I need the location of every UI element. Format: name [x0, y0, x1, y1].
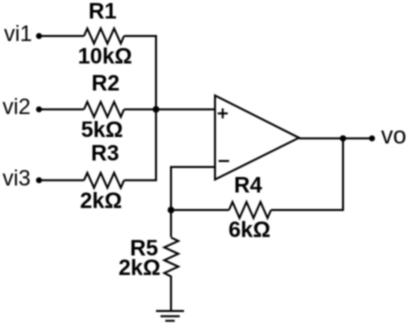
svg-text:vi2: vi2: [3, 94, 31, 119]
node feedback junction: [168, 207, 175, 214]
wire R3 to bus: [124, 109, 156, 180]
wire R4 lead from node: [171, 209, 229, 211]
wire R1 to bus: [124, 36, 156, 109]
svg-text:R1: R1: [88, 0, 116, 24]
op-amp U1: [215, 96, 299, 180]
wire R2 to op-amp + input: [124, 108, 215, 110]
node vi1 terminal dot: [36, 33, 42, 39]
svg-text:R4: R4: [234, 173, 263, 198]
wire vi2 lead: [40, 108, 84, 110]
resistor R2: [84, 102, 124, 117]
svg-text:6kΩ: 6kΩ: [228, 217, 270, 242]
node vi3 terminal dot: [36, 177, 42, 183]
svg-text:vi3: vi3: [3, 165, 31, 190]
svg-text:vi1: vi1: [4, 21, 32, 46]
node output junction: [340, 135, 346, 141]
node bus junction: [153, 106, 160, 113]
resistor R3: [84, 173, 124, 188]
ground: [156, 311, 184, 321]
op-amp - input symbol: [219, 160, 230, 162]
wire R5 to ground: [170, 283, 172, 311]
svg-text:R3: R3: [91, 141, 119, 166]
svg-text:2kΩ: 2kΩ: [118, 255, 160, 280]
wire inverting input: [171, 167, 215, 237]
resistor R4: [229, 202, 271, 218]
node vo terminal dot: [369, 135, 375, 141]
wire op-amp output: [299, 137, 372, 139]
wire vi3 lead: [40, 179, 84, 181]
svg-text:10kΩ: 10kΩ: [78, 44, 132, 69]
wire vi1 lead: [40, 35, 84, 37]
node vi2 terminal dot: [36, 106, 42, 112]
svg-text:R2: R2: [91, 71, 119, 96]
svg-text:2kΩ: 2kΩ: [80, 188, 122, 213]
wire R4 to output: [271, 138, 343, 210]
svg-text:vo: vo: [381, 123, 406, 150]
resistor R1: [84, 29, 124, 44]
resistor R5: [164, 238, 178, 284]
svg-text:5kΩ: 5kΩ: [81, 117, 123, 142]
op-amp + input symbol: [218, 108, 228, 118]
